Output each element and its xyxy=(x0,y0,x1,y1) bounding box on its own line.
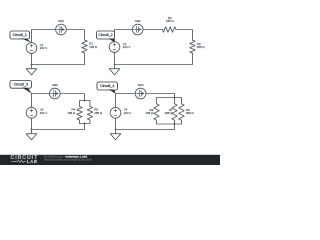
wire C4 top-feed xyxy=(146,94,175,104)
wire C3 top-right xyxy=(60,94,85,101)
wire C2 top-mid xyxy=(143,29,162,31)
resistor R6 186 ohm xyxy=(154,104,159,120)
wire C3 left-bot xyxy=(31,118,33,129)
svg-text:200 V: 200 V xyxy=(40,111,48,115)
voltage source V3 200 V xyxy=(26,107,37,118)
ammeter AM1 xyxy=(56,24,67,35)
svg-text:Circuit_4: Circuit_4 xyxy=(100,84,114,88)
resistor R5 286 ohm xyxy=(87,106,92,120)
svg-text:200 V: 200 V xyxy=(124,111,132,115)
wire C3 top bus xyxy=(80,101,91,107)
wire C4 left-bot xyxy=(115,118,117,130)
ground C4 xyxy=(115,130,117,134)
ammeter AM2 xyxy=(132,24,143,35)
junction C4 top xyxy=(174,97,176,99)
resistor R1 186 ohm xyxy=(82,40,87,53)
resistor R8 386 ohm xyxy=(179,104,184,120)
wire C3 bottom xyxy=(32,124,85,130)
svg-text:286 Ω: 286 Ω xyxy=(94,111,103,115)
wire C2 top-right xyxy=(176,30,193,41)
voltage source V1 200 V xyxy=(26,43,37,54)
wire C2 bottom xyxy=(115,53,193,64)
svg-text:AM4: AM4 xyxy=(138,83,144,87)
voltage source V4 200 V xyxy=(110,107,121,118)
wire C2 left xyxy=(114,52,116,64)
svg-text:186 Ω: 186 Ω xyxy=(67,111,76,115)
svg-text:Circuit_3: Circuit_3 xyxy=(14,83,28,87)
wire C3 left-top xyxy=(31,94,33,108)
svg-text:186 Ω: 186 Ω xyxy=(145,111,154,115)
svg-text:286 Ω: 286 Ω xyxy=(165,111,174,115)
svg-text:AM3: AM3 xyxy=(52,83,58,87)
ammeter AM4 xyxy=(135,88,146,99)
resistor R2 186 ohm xyxy=(162,27,176,32)
resistor R4 186 ohm xyxy=(77,106,82,120)
svg-text:LAB: LAB xyxy=(27,159,38,164)
wire C4 top-left xyxy=(116,93,136,95)
wire C4 bottom bus xyxy=(157,120,182,124)
wire C1 left xyxy=(31,53,33,64)
wire C1 bottom xyxy=(32,53,85,65)
ground C2 xyxy=(114,65,116,69)
svg-text:http://circuitlab.com/c4qj6vp3: http://circuitlab.com/c4qj6vp3nq2ksb/ xyxy=(44,158,92,162)
svg-text:186 Ω: 186 Ω xyxy=(166,19,175,23)
svg-text:Circuit_2: Circuit_2 xyxy=(98,33,112,37)
label flag Circuit_1 xyxy=(10,31,30,39)
svg-text:286 Ω: 286 Ω xyxy=(197,45,206,49)
svg-text:AM1: AM1 xyxy=(58,19,64,23)
wire C4 bottom xyxy=(116,120,175,129)
label flag Circuit_4 xyxy=(97,82,118,90)
svg-text:AM2: AM2 xyxy=(135,19,141,23)
svg-text:186 Ω: 186 Ω xyxy=(89,45,98,49)
label flag Circuit_3 xyxy=(10,81,32,89)
junction C4 bottom xyxy=(174,123,176,125)
wire C1 top-right xyxy=(66,30,84,41)
label flag Circuit_2 xyxy=(97,31,115,39)
wire C3 bottom bus xyxy=(80,120,91,124)
svg-text:200 V: 200 V xyxy=(40,46,48,50)
ground C3 xyxy=(31,130,33,134)
svg-text:Circuit_1: Circuit_1 xyxy=(13,33,27,37)
wire C4 left-top xyxy=(115,94,117,108)
ground C1 xyxy=(31,65,33,69)
wire C3 top-left xyxy=(32,93,50,95)
wire C2 top-left xyxy=(115,30,133,43)
footer bar xyxy=(0,155,220,165)
voltage source V2 200 V xyxy=(109,42,120,53)
ammeter AM3 xyxy=(49,88,60,99)
wire C4 top bus xyxy=(157,98,182,104)
svg-text:386 Ω: 386 Ω xyxy=(186,111,195,115)
junction C3 top xyxy=(84,100,86,102)
resistor R7 286 ohm xyxy=(172,104,177,120)
junction C3 bottom xyxy=(84,123,86,125)
wire C1 top-left xyxy=(32,30,56,43)
resistor R3 286 ohm xyxy=(190,40,195,53)
svg-text:200 V: 200 V xyxy=(123,45,131,49)
